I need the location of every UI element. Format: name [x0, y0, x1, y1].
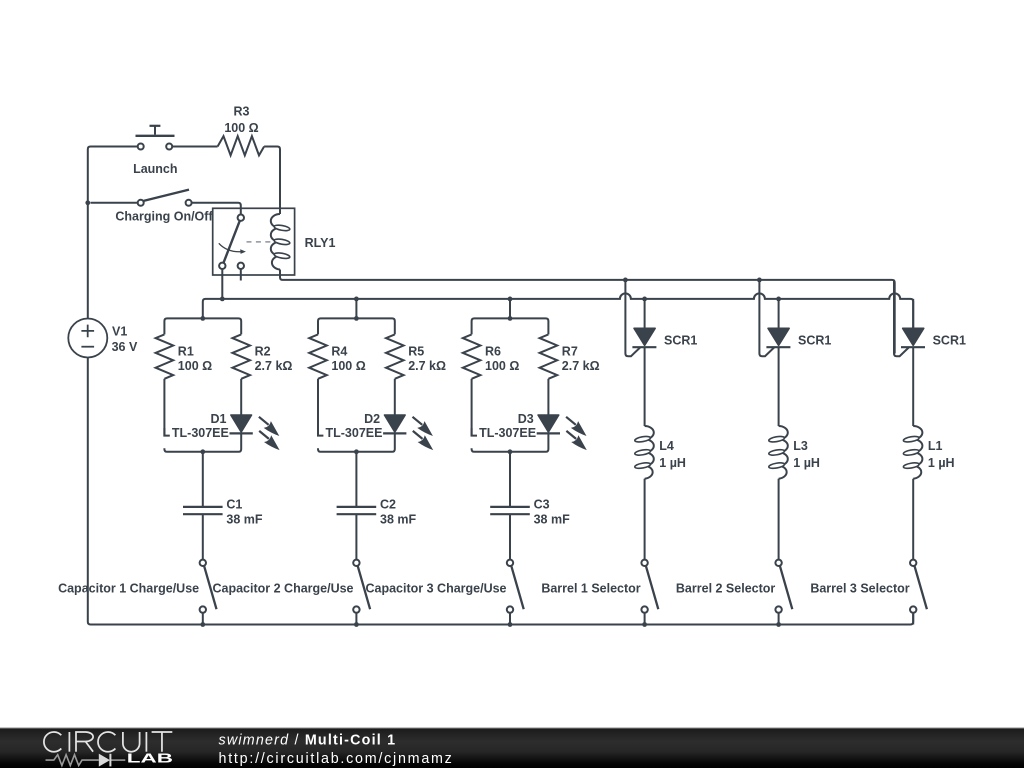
- svg-text:TL-307EE: TL-307EE: [172, 426, 229, 440]
- svg-text:38 mF: 38 mF: [534, 513, 570, 527]
- svg-text:R3: R3: [234, 105, 250, 119]
- svg-text:RLY1: RLY1: [305, 236, 336, 250]
- svg-text:L4: L4: [659, 439, 674, 453]
- svg-text:100 Ω: 100 Ω: [331, 359, 365, 373]
- svg-text:Capacitor 1 Charge/Use: Capacitor 1 Charge/Use: [58, 582, 199, 596]
- svg-text:R6: R6: [485, 344, 501, 358]
- svg-text:LAB: LAB: [127, 751, 173, 766]
- svg-text:swimnerd / Multi-Coil 1: swimnerd / Multi-Coil 1: [219, 733, 397, 749]
- svg-text:R1: R1: [178, 344, 194, 358]
- svg-text:C2: C2: [380, 498, 396, 512]
- svg-text:R2: R2: [255, 344, 271, 358]
- svg-text:V1: V1: [112, 325, 127, 339]
- svg-text:Charging On/Off: Charging On/Off: [115, 210, 213, 224]
- svg-text:D3: D3: [518, 412, 534, 426]
- svg-text:36 V: 36 V: [112, 340, 138, 354]
- svg-text:100 Ω: 100 Ω: [178, 359, 212, 373]
- svg-text:C3: C3: [534, 498, 550, 512]
- svg-text:L1: L1: [928, 439, 943, 453]
- svg-text:38 mF: 38 mF: [380, 513, 416, 527]
- svg-text:http://circuitlab.com/cjnmamz: http://circuitlab.com/cjnmamz: [219, 751, 454, 767]
- svg-text:100 Ω: 100 Ω: [224, 121, 258, 135]
- svg-text:Barrel 3 Selector: Barrel 3 Selector: [810, 582, 909, 596]
- svg-text:D2: D2: [364, 412, 380, 426]
- svg-text:TL-307EE: TL-307EE: [326, 426, 383, 440]
- svg-text:D1: D1: [211, 412, 227, 426]
- svg-text:1 µH: 1 µH: [793, 456, 820, 470]
- svg-text:1 µH: 1 µH: [659, 456, 686, 470]
- svg-text:SCR1: SCR1: [933, 334, 966, 348]
- svg-text:2.7 kΩ: 2.7 kΩ: [255, 359, 293, 373]
- svg-text:Capacitor 3 Charge/Use: Capacitor 3 Charge/Use: [365, 582, 506, 596]
- svg-text:R7: R7: [562, 344, 578, 358]
- svg-text:C1: C1: [226, 498, 242, 512]
- svg-text:R4: R4: [331, 344, 347, 358]
- svg-text:SCR1: SCR1: [798, 334, 831, 348]
- svg-text:1 µH: 1 µH: [928, 456, 955, 470]
- svg-text:Launch: Launch: [133, 162, 177, 176]
- svg-text:2.7 kΩ: 2.7 kΩ: [562, 359, 600, 373]
- svg-text:2.7 kΩ: 2.7 kΩ: [408, 359, 446, 373]
- svg-text:L3: L3: [793, 439, 808, 453]
- svg-text:R5: R5: [408, 344, 424, 358]
- svg-text:TL-307EE: TL-307EE: [479, 426, 536, 440]
- svg-text:100 Ω: 100 Ω: [485, 359, 519, 373]
- svg-text:38 mF: 38 mF: [226, 513, 262, 527]
- svg-text:Capacitor 2 Charge/Use: Capacitor 2 Charge/Use: [212, 582, 353, 596]
- svg-text:Barrel 2 Selector: Barrel 2 Selector: [676, 582, 775, 596]
- svg-text:SCR1: SCR1: [664, 334, 697, 348]
- svg-text:Barrel 1 Selector: Barrel 1 Selector: [541, 582, 640, 596]
